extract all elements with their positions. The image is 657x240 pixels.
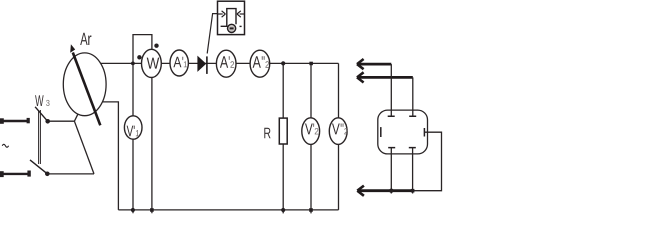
- wire V'2 branch: [310, 63, 312, 213]
- terminal line 1: [2, 120, 28, 122]
- node square top rail: [309, 62, 313, 65]
- W polarity dot left: [137, 55, 141, 59]
- voltmeter V'1: [124, 116, 142, 139]
- node dots bottom rail: [131, 208, 135, 212]
- wire arrow2 drop to tube pin: [412, 77, 414, 116]
- wire switch bottom pole: [47, 173, 94, 175]
- wire W bottom drop: [151, 49, 153, 213]
- AC tilde: [2, 144, 8, 147]
- pulse waveform: [221, 9, 236, 27]
- terminal blobs AC input: [0, 118, 31, 177]
- wire link to ellipse: [74, 112, 78, 121]
- arrow left inside box: [218, 13, 223, 15]
- tube pin node dot round: [389, 189, 393, 193]
- ammeter A'1: [170, 50, 188, 76]
- terminal line 2: [2, 173, 29, 175]
- label Ar: [80, 33, 87, 45]
- wire tube right pin loop: [413, 132, 442, 191]
- label W3: [35, 95, 44, 106]
- arrow right inside box: [240, 13, 245, 15]
- wire diagonal to Ar bottom: [74, 121, 94, 174]
- switch contact dot bottom: [45, 172, 50, 177]
- resistor R: [279, 118, 287, 144]
- switch contact dot top: [45, 119, 50, 124]
- tube top electrode bars: [388, 115, 417, 117]
- arrow output 2: [358, 76, 413, 79]
- switch W3 bar double line: [39, 110, 41, 164]
- wire switch top pole to Ar: [48, 120, 75, 122]
- wire top rail: [101, 62, 339, 64]
- autotransformer Ar: [63, 53, 106, 116]
- wire R branch: [282, 63, 284, 213]
- Ar arrow: [73, 53, 101, 126]
- arrow output 1: [358, 63, 392, 66]
- wire bottom rail: [118, 209, 338, 211]
- W polarity dot upper: [154, 44, 158, 48]
- tube pin node dot square: [411, 189, 415, 193]
- label R: [264, 128, 270, 139]
- oscilloscope box: [218, 1, 245, 34]
- wire V'1 branch: [132, 63, 134, 213]
- voltmeter V'2: [302, 118, 320, 145]
- wire W voltage loop: [133, 35, 152, 64]
- switch blade bottom: [30, 160, 47, 174]
- diode VD: [197, 56, 206, 72]
- tube envelope: [378, 110, 428, 154]
- ammeter A''2: [250, 50, 270, 77]
- tube bottom pins: [391, 148, 412, 194]
- wattmeter W: [142, 49, 162, 77]
- junction dot at W tap: [131, 62, 135, 66]
- tube bottom electrode bars: [388, 147, 416, 149]
- wire arrow1 drop to tube pin: [390, 64, 392, 116]
- wire diode to oscilloscope box: [207, 14, 219, 54]
- tube right electrode bar: [423, 128, 425, 137]
- ammeter A'2: [216, 50, 236, 77]
- indicator circle: [228, 24, 236, 32]
- arrow output 3 bottom: [358, 189, 413, 192]
- voltmeter V''2: [329, 118, 347, 145]
- tube left inner bar: [380, 127, 382, 137]
- node dot top rail: [281, 61, 285, 65]
- wire right corner down V''2 branch: [338, 63, 340, 210]
- pulse right dash: [240, 25, 242, 27]
- switch blade top: [35, 107, 48, 122]
- wire left riser from Ar lower tap: [103, 102, 119, 210]
